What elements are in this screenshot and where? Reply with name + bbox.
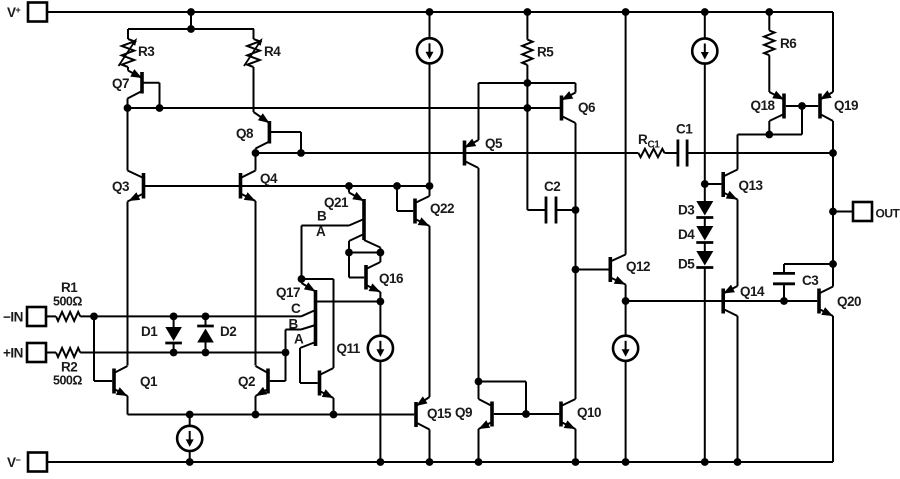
terminal +IN [3, 343, 46, 362]
node Q5 collector / Q9 [475, 378, 483, 386]
current source I3 [368, 302, 393, 463]
terminal V+ [7, 3, 47, 22]
wire bottom V- rail [47, 461, 833, 463]
resistor R3 (trimmed) [119, 29, 156, 71]
svg-text:Q5: Q5 [485, 136, 503, 151]
svg-text:Q15: Q15 [427, 406, 452, 421]
node top rail x769 [765, 8, 773, 16]
svg-text:D5: D5 [678, 257, 695, 272]
node top rail x625 [622, 8, 630, 16]
svg-text:R3: R3 [138, 44, 155, 59]
terminal -IN [3, 307, 46, 326]
node -IN x205 [202, 313, 210, 321]
wire Q21 base to Q16 collector [349, 252, 380, 254]
transistor Q21 (multi-collector) [302, 186, 381, 279]
svg-text:D2: D2 [220, 324, 236, 339]
transistor Q6 [562, 83, 597, 399]
svg-text:Q7: Q7 [112, 76, 129, 91]
svg-text:R5: R5 [537, 45, 554, 60]
transistor Q12 [576, 12, 651, 301]
node top rail x191 [187, 8, 195, 16]
wire -IN line [80, 315, 301, 317]
svg-text:Q16: Q16 [379, 271, 404, 286]
node V- rail x737 [734, 458, 742, 466]
svg-text:D3: D3 [678, 203, 695, 218]
current source I2b [692, 12, 717, 201]
transistor Q1 [94, 316, 158, 414]
node V- rail x429 [426, 458, 434, 466]
svg-text:C: C [291, 301, 301, 316]
svg-text:C1: C1 [676, 122, 693, 137]
svg-text:Q10: Q10 [577, 405, 601, 420]
svg-text:Q19: Q19 [834, 98, 858, 113]
svg-text:Q21: Q21 [324, 195, 349, 210]
wire Q5Q6 emitter line [479, 82, 576, 84]
svg-text:500Ω: 500Ω [53, 295, 82, 309]
wire line A [128, 107, 562, 109]
diode D2 [197, 316, 236, 352]
svg-text:Q2: Q2 [238, 374, 255, 389]
svg-text:Q6: Q6 [578, 100, 596, 115]
node -IN x173 [170, 313, 178, 321]
wire rail stub down at x191 [190, 12, 192, 29]
terminal OUT [833, 202, 900, 221]
node Q9Q10 base [522, 410, 530, 418]
svg-text:Q18: Q18 [751, 98, 776, 113]
svg-text:Q13: Q13 [739, 178, 764, 193]
node tail x255 [252, 411, 260, 419]
svg-text:B: B [289, 317, 299, 332]
node line B x833 [829, 149, 837, 157]
node x349 y252 [345, 249, 353, 257]
wire line B right [687, 152, 833, 154]
svg-text:−IN: −IN [3, 310, 23, 325]
wire line B left [256, 152, 639, 154]
svg-text:A: A [316, 224, 326, 239]
svg-text:Q12: Q12 [626, 259, 650, 274]
node Q17 emitter [298, 275, 306, 283]
node Q18Q19 base [798, 102, 806, 110]
svg-text:R1: R1 [61, 280, 78, 295]
transistor Q8 [236, 112, 301, 153]
svg-text:Q8: Q8 [236, 126, 254, 141]
svg-text:R4: R4 [264, 44, 281, 59]
wire Q13 collector to mirror [738, 134, 770, 136]
wire line B mid [665, 152, 678, 154]
node Q12 base [572, 266, 580, 274]
wire R5 node to line A [526, 83, 528, 108]
svg-text:D1: D1 [141, 324, 158, 339]
svg-text:Q4: Q4 [260, 171, 278, 186]
transistor Q14 [723, 284, 765, 462]
current source I4 [613, 301, 638, 462]
node OUT y211 [829, 208, 837, 216]
transistor Q7 [112, 69, 160, 108]
svg-text:B: B [317, 209, 327, 224]
capacitor C1 [676, 122, 693, 167]
node tail x333 [330, 411, 338, 419]
node Q17 base / Q16 emitter [377, 298, 385, 306]
node V- rail x478 [475, 458, 483, 466]
node top rail x527 [524, 8, 532, 16]
node -IN x94 [90, 313, 98, 321]
wire +IN line [80, 352, 285, 354]
capacitor C3 [773, 264, 833, 301]
svg-text:+IN: +IN [3, 346, 23, 361]
node V- rail x705 [701, 458, 709, 466]
node line A x159 [156, 104, 164, 112]
resistor R4 (trimmed) [244, 29, 281, 112]
wire top V+ rail [47, 11, 833, 13]
wire Q19 emitter riser from V+ rail [832, 12, 834, 92]
wire R3-R4 top line [128, 28, 254, 30]
node V- rail x380 [377, 458, 385, 466]
svg-text:A: A [294, 332, 304, 347]
node base line x429 [426, 182, 434, 190]
wire OUT riser upper [832, 153, 834, 264]
node top rail x705 [701, 8, 709, 16]
svg-text:Q17: Q17 [276, 285, 300, 300]
transistor Q22 [397, 186, 454, 397]
transistor Q4 [241, 153, 279, 366]
transistor Q18 [751, 91, 803, 135]
resistor R2 [46, 348, 83, 388]
transistor Q10 [526, 399, 601, 462]
svg-text:R6: R6 [780, 36, 797, 51]
node tail x190 [186, 411, 194, 419]
node C3 bottom [780, 297, 788, 305]
node line B x255 [252, 149, 260, 157]
node V- rail x575 [572, 458, 580, 466]
node line A x127 [124, 104, 132, 112]
node C2 right [572, 206, 580, 214]
resistor RC1 [638, 132, 665, 157]
node line A x527 [524, 104, 532, 112]
transistor Q13 [705, 135, 764, 287]
node +IN x285 [282, 349, 290, 357]
svg-text:R: R [638, 132, 648, 147]
diode D3 [678, 201, 713, 226]
wire Q12emitter to Q14/Q20 base line [626, 300, 818, 302]
diode D1 [141, 316, 182, 352]
terminal V- [7, 453, 47, 472]
svg-text:C2: C2 [544, 179, 560, 194]
transistor Q19 [802, 90, 858, 153]
svg-text:Q3: Q3 [112, 179, 130, 194]
node V- rail x625 [622, 458, 630, 466]
node R3R4 line x191 [187, 25, 195, 33]
transistor Q2 [238, 353, 286, 415]
node R5 bottom [524, 79, 532, 87]
node OUT y264 [829, 260, 837, 268]
wire Q3Q4 base line [145, 185, 430, 187]
resistor R5 [522, 12, 554, 83]
resistor R6 [764, 12, 797, 92]
svg-text:C1: C1 [648, 140, 661, 151]
svg-text:Q1: Q1 [140, 374, 158, 389]
svg-text:D4: D4 [678, 227, 695, 242]
node top rail x429 [426, 8, 434, 16]
node +IN x205 [202, 349, 210, 357]
svg-text:Q11: Q11 [337, 341, 361, 356]
resistor R1 [46, 280, 83, 321]
node V- rail x190 [186, 458, 194, 466]
svg-text:500Ω: 500Ω [53, 374, 82, 388]
node Q12 emitter [622, 297, 630, 305]
svg-text:R2: R2 [61, 360, 77, 375]
svg-text:Q22: Q22 [430, 201, 454, 216]
svg-text:Q9: Q9 [455, 405, 472, 420]
node Q13 base [701, 180, 709, 188]
transistor Q5 [465, 83, 504, 382]
node line B x301 [297, 149, 305, 157]
svg-text:Q20: Q20 [837, 294, 861, 309]
node mirror x769 [765, 131, 773, 139]
node x380 y252 [377, 249, 385, 257]
transistor Q16 [349, 253, 404, 302]
node +IN x173 [170, 349, 178, 357]
transistor Q20 [819, 264, 861, 462]
current source I1 (tail) [177, 415, 202, 463]
transistor Q11 [302, 279, 361, 415]
transistor Q15 [416, 396, 452, 462]
wire mirror base drop [769, 106, 802, 135]
transistor Q3 [112, 108, 144, 366]
svg-text:Q14: Q14 [740, 284, 765, 299]
node base line x349 [345, 182, 353, 190]
transistor Q9 [455, 382, 526, 463]
capacitor C2 [527, 108, 575, 224]
transistor Q17 (multi-collector) [276, 279, 380, 383]
svg-text:C3: C3 [802, 273, 819, 288]
svg-text:OUT: OUT [876, 207, 900, 221]
diode D5 [678, 251, 713, 462]
diode D4 [678, 226, 713, 251]
current source I2a [417, 12, 442, 186]
node base line x397 [393, 182, 401, 190]
wire tail line [128, 414, 415, 416]
